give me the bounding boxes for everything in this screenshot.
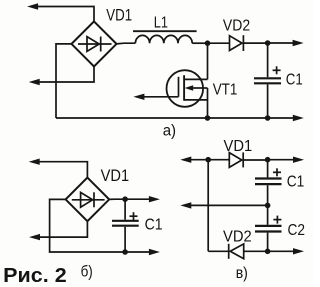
svg-text:C2: C2 [288, 222, 306, 239]
svg-text:C1: C1 [286, 72, 303, 89]
svg-text:C1: C1 [287, 174, 305, 191]
diode VD1 (circuit v) [229, 152, 267, 167]
polarity + of C2 (circuit v) [273, 216, 281, 224]
polarity + of C1 (circuit v) [273, 168, 281, 176]
wire: bridge + output with arrow (circuit b) [109, 196, 160, 202]
node: C1 - / C2 + junction (circuit v) [265, 203, 271, 209]
capacitor C1 (circuit b) [112, 199, 139, 252]
svg-text:в): в) [236, 265, 248, 282]
wire: output + top with arrow (circuit v) [268, 157, 304, 163]
capacitor C1 (circuit a) [254, 43, 281, 118]
wire: input top with arrow (circuit v) [180, 157, 208, 163]
wire: bridge - output down to negative rail [56, 44, 72, 118]
wire: node to VD1 anode (circuit v) [208, 159, 229, 161]
wire: VT1 drain up to node [207, 43, 209, 79]
svg-text:VD1: VD1 [106, 5, 132, 24]
svg-text:VD2: VD2 [223, 229, 252, 246]
svg-text:Рис. 2: Рис. 2 [3, 265, 66, 287]
bridge rectifier VD1 (circuit a) [72, 21, 117, 66]
svg-text:VT1: VT1 [213, 81, 238, 98]
svg-text:L1: L1 [154, 15, 168, 32]
wire: bridge - output to bottom rail with arrow (circuit b) [50, 199, 160, 255]
node: C1 - on bottom rail (circuit b) [122, 249, 128, 255]
svg-text:C1: C1 [145, 217, 163, 234]
wire: AC input 2 of circuit a (to bridge bottom corner) [29, 66, 94, 85]
svg-text:VD2: VD2 [223, 17, 250, 34]
node: VD1 anode branch (circuit v) [205, 157, 211, 163]
wire: VT1 gate lead with arrow [133, 94, 178, 100]
wire: negative rail (circuit a) [56, 117, 294, 119]
wire: bridge + output to L1 [117, 42, 136, 45]
wire: AC input 1 of circuit b (to bridge top corner) [29, 159, 88, 178]
svg-text:VD1: VD1 [101, 166, 130, 185]
bridge rectifier VD1 (circuit b) [66, 178, 110, 222]
wire: AC input 1 of circuit a (top-left, to bridge top corner) [27, 3, 94, 21]
svg-text:а): а) [163, 123, 176, 140]
wire: left vertical VD1-anode to VD2-cathode (circuit v) [207, 160, 209, 252]
svg-text:б): б) [81, 264, 93, 281]
transistor VT1 (MOSFET) [167, 70, 208, 107]
wire: input mid with arrow (circuit v) [180, 202, 267, 208]
polarity + of C1 (circuit a) [273, 66, 281, 74]
inductor L1 [133, 31, 197, 43]
diode VD2 (circuit a) [230, 35, 268, 51]
node: VT1 source on negative rail [205, 115, 211, 121]
node: L1 / VD2 anode / VT1 drain junction [205, 40, 211, 46]
node: VD2 cathode / C1 + terminal [265, 40, 271, 46]
wire: L1 to drain node [192, 42, 207, 44]
arrow: negative output (circuit a) [293, 115, 304, 121]
node: C1 - on negative rail [265, 115, 271, 121]
wire: positive output with arrow (circuit a) [268, 40, 304, 46]
svg-text:VD1: VD1 [224, 138, 253, 155]
wire: bottom row from left vertical to VD2 cathode (circuit v) [208, 250, 229, 252]
wire: VT1 source/body down to negative rail [207, 88, 209, 118]
polarity + of C1 (circuit b) [130, 212, 138, 220]
wire: AC input 2 of circuit b (to bridge bottom corner) [29, 221, 87, 240]
capacitor C2 (circuit v) [255, 205, 282, 251]
node: VD2 anode / C2 - (circuit v) [265, 249, 271, 255]
wire: node to VD2 anode [208, 42, 230, 44]
node: bridge + / C1 + (circuit b) [122, 196, 128, 202]
wire: output - bottom with arrow (circuit v) [268, 248, 304, 254]
diode VD2 (circuit v, pointing left) [229, 244, 268, 259]
capacitor C1 (circuit v) [255, 160, 282, 206]
node: VD1 cathode / C1 + (circuit v) [265, 157, 271, 163]
